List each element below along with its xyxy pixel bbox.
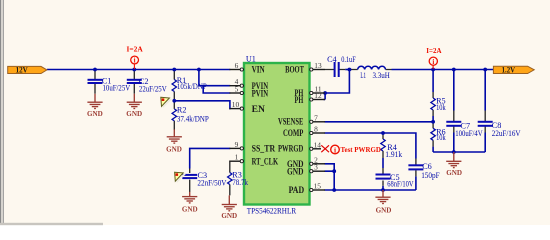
svg-text:GND: GND [376, 205, 392, 214]
current probe I=2A (output) [426, 46, 442, 69]
capacitor C8 [478, 122, 493, 126]
wire R5-R6 vsense node [432, 116, 434, 122]
L1 leads [352, 69, 392, 71]
svg-text:8: 8 [314, 125, 318, 134]
C2 leads [133, 70, 135, 94]
pin 6 [230, 69, 245, 71]
component leads (black pins) [95, 70, 485, 196]
R6 leads [432, 122, 434, 147]
ground (C1) [87, 94, 102, 109]
R2 leads [173, 101, 175, 130]
wire C8 drop [484, 70, 486, 153]
wire R6 bottom [432, 147, 434, 152]
svg-text:VIN: VIN [252, 64, 265, 75]
svg-text:150pF: 150pF [421, 171, 440, 180]
svg-text:1: 1 [235, 153, 239, 162]
svg-text:TPS54622RHLR: TPS54622RHLR [247, 207, 297, 216]
svg-text:22uF/16V: 22uF/16V [492, 129, 521, 138]
svg-text:13: 13 [314, 61, 322, 70]
svg-text:37.4k/DNP: 37.4k/DNP [177, 115, 209, 124]
svg-text:C4: C4 [327, 55, 337, 64]
svg-text:22uF/25V: 22uF/25V [139, 84, 167, 93]
IC U1 TPS54622RHLR [244, 54, 310, 215]
pin 1 [230, 160, 245, 162]
ground (C5/PAD) [375, 190, 390, 204]
svg-text:R2: R2 [177, 106, 187, 115]
svg-text:GND: GND [446, 168, 462, 177]
svg-text:68nF/10V: 68nF/10V [387, 179, 413, 188]
sheet bottom border [0, 223, 103, 225]
resistor R6 [431, 128, 435, 140]
svg-text:Test PWRGD: Test PWRGD [341, 145, 382, 154]
svg-text:L1: L1 [360, 71, 366, 80]
wire gnd bus [433, 151, 485, 153]
probe Test PWRGD [331, 145, 382, 155]
svg-text:100uF/4V: 100uF/4V [455, 129, 482, 138]
wire pin12 jog [324, 93, 326, 100]
svg-text:15: 15 [314, 182, 322, 191]
wire C5 bottom [382, 186, 384, 190]
wire L1 to output port [392, 69, 494, 71]
wire VSENSE [325, 121, 434, 123]
capacitor C2 [127, 80, 142, 83]
ground (R2) [167, 129, 182, 143]
svg-text:GND: GND [166, 145, 182, 154]
R1 leads [173, 70, 175, 101]
wire COMP [325, 133, 416, 159]
wire PAD/gnd net [325, 189, 416, 191]
wire R5 top lead [432, 70, 434, 93]
pin 11 [310, 92, 326, 94]
svg-text:10: 10 [232, 100, 240, 109]
pin 12 [310, 99, 326, 101]
pin 14 [310, 148, 322, 150]
svg-text:RT_CLK: RT_CLK [252, 157, 279, 168]
C6 leads [415, 159, 417, 177]
svg-text:GND: GND [87, 109, 103, 118]
directive marker (C3) [175, 172, 186, 182]
svg-text:6: 6 [235, 61, 239, 70]
svg-text:10uF/25V: 10uF/25V [103, 84, 131, 93]
svg-text:22nF/50V: 22nF/50V [197, 179, 226, 188]
resistor R2 [172, 109, 176, 121]
capacitor C4 [335, 62, 339, 77]
svg-text:i: i [134, 57, 136, 65]
svg-text:GND: GND [126, 109, 142, 118]
C1 leads [94, 70, 96, 94]
wire PH drop [325, 70, 349, 94]
port 12V [8, 65, 47, 74]
capacitor C3 [182, 175, 197, 178]
svg-text:PH: PH [295, 95, 304, 106]
C5 leads [382, 168, 384, 186]
svg-text:GND: GND [287, 167, 304, 178]
resistor R1 [172, 80, 176, 92]
resistor R4 [381, 139, 385, 151]
svg-text:i: i [432, 58, 434, 66]
directive marker (EN) [161, 97, 172, 107]
svg-text:VSENSE: VSENSE [278, 117, 303, 128]
capacitor C1 [88, 80, 103, 83]
pin 10 [230, 108, 245, 110]
C3 leads [189, 169, 191, 193]
svg-text:GND: GND [221, 211, 237, 220]
capacitor C5 [376, 175, 391, 179]
wire 12V rail [47, 69, 230, 71]
svg-text:PVIN: PVIN [252, 88, 269, 99]
svg-text:SS_TR: SS_TR [252, 144, 276, 155]
svg-text:105k/DNP: 105k/DNP [177, 82, 207, 91]
wire GND pins drop [325, 164, 335, 190]
pin 15 [310, 189, 326, 191]
svg-text:3: 3 [314, 163, 318, 172]
wire SS_TR to C3 [190, 148, 231, 168]
current probe I=2A (input) [127, 45, 144, 69]
ground (output bus) [446, 152, 461, 168]
IC pin names [252, 64, 305, 196]
svg-text:5: 5 [235, 85, 239, 94]
svg-text:12: 12 [314, 91, 322, 100]
svg-text:PWRGD: PWRGD [278, 144, 303, 155]
svg-text:7: 7 [314, 113, 318, 122]
sheet left border [0, 0, 1, 225]
svg-text:1.2V: 1.2V [502, 65, 516, 74]
pin 7 [310, 121, 326, 123]
svg-text:U1: U1 [246, 54, 256, 63]
pin 9 [230, 147, 245, 149]
svg-text:0.1uF: 0.1uF [341, 55, 356, 64]
R3 leads [229, 161, 232, 195]
resistor R5 [431, 98, 435, 110]
svg-text:I=2A: I=2A [426, 46, 442, 55]
port 1.2V [493, 65, 534, 74]
R4 leads [382, 133, 384, 158]
wire EN to pin10 [174, 101, 230, 109]
svg-text:12V: 12V [16, 65, 28, 74]
svg-text:10k: 10k [436, 133, 446, 142]
capacitor C6 [408, 165, 423, 169]
ground (R3) [222, 195, 237, 210]
pin 13 [310, 69, 326, 71]
ground (C2) [127, 94, 142, 109]
svg-text:9: 9 [235, 140, 239, 149]
IC pins (black stubs) [230, 70, 326, 191]
wire PVIN stair [199, 70, 230, 94]
svg-text:PAD: PAD [289, 185, 305, 196]
resistor R3 [228, 173, 232, 185]
inductor L1 [358, 66, 386, 69]
svg-text:BOOT: BOOT [285, 64, 304, 75]
no-ERC cross (PWRGD) [321, 145, 329, 152]
pin numbers [232, 61, 322, 191]
pin 8 [310, 132, 326, 134]
svg-text:10k: 10k [436, 103, 446, 112]
ground (C3) [182, 192, 197, 203]
C4 leads [325, 69, 345, 71]
pin root circles [240, 68, 313, 192]
svg-text:1.91k: 1.91k [385, 150, 403, 159]
wire C4 to PH node [345, 69, 351, 71]
wire C6 bottom [415, 176, 417, 190]
C8 leads [484, 111, 486, 133]
R5 leads [432, 92, 434, 116]
svg-text:COMP: COMP [283, 128, 303, 139]
svg-text:3.3uH: 3.3uH [373, 71, 390, 80]
wire C7 drop [453, 70, 455, 153]
svg-text:I=2A: I=2A [127, 45, 144, 54]
pin 2 [310, 163, 326, 165]
capacitor C7 [446, 122, 461, 126]
svg-text:EN: EN [252, 104, 265, 115]
pin 3 [310, 170, 326, 172]
wire R4 to C5 mid [382, 158, 384, 168]
C7 leads [453, 111, 455, 133]
svg-text:GND: GND [182, 205, 198, 214]
pin 5 [230, 92, 245, 94]
pin 4 [230, 85, 245, 87]
svg-text:14: 14 [314, 140, 322, 149]
svg-text:i: i [334, 145, 336, 154]
svg-text:78.7k: 78.7k [232, 178, 248, 187]
